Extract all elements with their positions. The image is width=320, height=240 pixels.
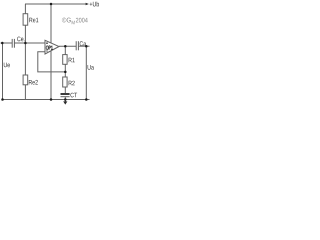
resistor Re2 xyxy=(23,75,28,85)
label op-amp text OP1 xyxy=(46,46,53,50)
wire R2 bottom to CT xyxy=(64,87,66,93)
wire bias column lower xyxy=(24,85,26,100)
node junction bias and plus input xyxy=(24,42,27,45)
wire bias column middle xyxy=(24,25,26,75)
wire supply bottom to ground xyxy=(50,51,52,100)
wire Ca to output terminal xyxy=(78,45,89,47)
watermark copyright GM2004 xyxy=(62,18,88,25)
label Ca xyxy=(80,41,87,46)
resistor R1 xyxy=(63,55,67,65)
node ground left xyxy=(1,98,4,101)
wire Ce to op-amp plus input xyxy=(14,42,45,44)
ground arrow below CT xyxy=(63,101,67,104)
capacitor Ce plates xyxy=(11,39,13,48)
wire op-amp output xyxy=(59,45,76,47)
wire CT bottom lead xyxy=(64,97,66,100)
resistor R2 xyxy=(63,77,67,87)
node output junction xyxy=(64,45,67,48)
label Ue xyxy=(4,63,10,68)
node feedback junction R1 R2 xyxy=(64,71,67,74)
node output terminal xyxy=(85,45,88,48)
wire op-amp minus feedback loop xyxy=(38,52,66,72)
node input terminal xyxy=(1,42,4,45)
label Ua xyxy=(88,65,94,70)
capacitor Ca plates xyxy=(75,41,77,50)
op-amp plus input marker xyxy=(46,42,48,44)
wire supply top to op-amp xyxy=(50,4,52,44)
label Re2 xyxy=(29,80,38,85)
node ground output xyxy=(85,98,88,101)
wire input stub xyxy=(1,42,13,44)
wire Ue input port line xyxy=(2,43,4,100)
wire Ua output port line xyxy=(85,46,87,99)
resistor Re1 xyxy=(23,14,28,26)
wire bottom ground rail xyxy=(3,99,90,101)
op-amp U1 triangle xyxy=(45,40,59,54)
wire R1 bottom to R2 top xyxy=(64,64,66,77)
node junction top rail to supply xyxy=(50,3,53,6)
node ground CT xyxy=(64,98,67,101)
label Ce xyxy=(17,37,24,42)
label Re1 xyxy=(29,18,38,23)
capacitor CT top plate filled xyxy=(61,93,70,95)
label +Ub supply xyxy=(90,2,99,7)
label R1 xyxy=(69,58,75,63)
wire output node down to R1 xyxy=(64,46,66,54)
node ground supply xyxy=(50,98,53,101)
arrow +Ub supply xyxy=(86,3,89,5)
label CT xyxy=(70,93,77,98)
label R2 xyxy=(69,81,75,86)
wire left bias column upper xyxy=(24,4,26,14)
wire top rail +Ub xyxy=(25,3,86,5)
op-amp minus input marker xyxy=(46,50,48,52)
capacitor CT bottom plate xyxy=(61,96,70,98)
